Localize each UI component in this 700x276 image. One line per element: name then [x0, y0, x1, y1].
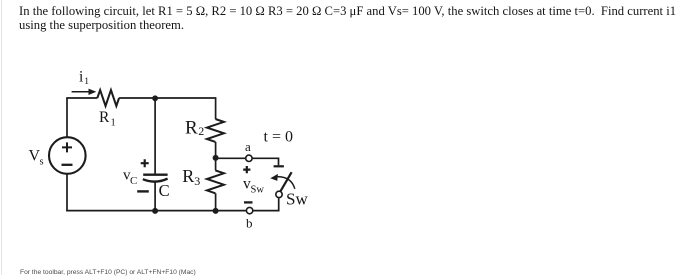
svg-text:1: 1 — [111, 118, 116, 129]
node junction top (capacitor tap) — [152, 95, 158, 101]
wire bottom — [66, 210, 246, 212]
node junction bottom (R3) — [213, 208, 219, 214]
svg-text:b: b — [246, 216, 253, 231]
resistor R2 — [207, 119, 224, 142]
node junction R2-R3 — [213, 155, 219, 161]
resistor R3 lead bottom — [215, 193, 217, 210]
voltage source Vs circle — [49, 137, 86, 174]
switch fixed contact bar — [274, 165, 284, 167]
terminal b — [246, 207, 252, 213]
svg-text:R: R — [182, 166, 194, 186]
svg-text:R: R — [185, 117, 198, 138]
v_sw plus sign — [243, 166, 250, 173]
switch blade — [280, 172, 291, 191]
svg-text:3: 3 — [194, 174, 200, 188]
svg-text:1: 1 — [84, 77, 89, 87]
capacitor C bottom plate (curved) — [143, 179, 168, 182]
svg-text:Sw: Sw — [251, 185, 265, 196]
capacitor plus sign — [141, 159, 149, 167]
svg-text:2: 2 — [198, 124, 204, 138]
svg-text:a: a — [245, 139, 251, 154]
wire R2 branch top lead — [215, 97, 217, 119]
wire top (corner to R1) — [66, 97, 97, 99]
wire terminal a to fixed contact — [252, 158, 278, 165]
terminal a — [246, 155, 252, 161]
question text — [19, 5, 676, 33]
left faint border — [1, 0, 2, 275]
wire terminal b to switch pivot — [253, 198, 279, 211]
svg-text:t = 0: t = 0 — [264, 129, 293, 146]
wire left vertical bottom (source to bottom wire) — [66, 174, 68, 211]
switch closing arrow arc — [278, 177, 295, 189]
capacitor C top plate — [143, 173, 167, 175]
svg-text:s: s — [40, 157, 44, 168]
wire R1 to R2 corner — [119, 97, 216, 99]
switch pivot — [276, 191, 282, 197]
switch closing arrow head — [270, 174, 278, 181]
node junction bottom (capacitor) — [152, 208, 158, 214]
wire R2 to junction — [215, 142, 217, 158]
Vs minus sign — [62, 164, 73, 166]
wire left vertical (source to top corner) — [66, 98, 68, 137]
capacitor C bottom lead — [154, 182, 156, 211]
capacitor C top lead — [154, 98, 156, 174]
current arrow i1 head — [89, 89, 97, 95]
toolbar hint text — [20, 269, 196, 276]
current arrow i1 line — [72, 91, 91, 93]
svg-text:C: C — [159, 181, 170, 200]
resistor R1 — [97, 90, 119, 106]
capacitor minus sign — [137, 190, 149, 192]
resistor R3 — [207, 170, 224, 193]
svg-text:i: i — [79, 69, 84, 86]
v_sw minus sign — [244, 201, 253, 203]
resistor R3 lead top — [215, 158, 217, 170]
wire middle (junction to terminal a) — [218, 157, 246, 159]
Vs plus sign — [62, 142, 72, 152]
svg-text:Sw: Sw — [286, 189, 308, 208]
svg-text:R: R — [99, 109, 110, 126]
svg-text:C: C — [130, 175, 137, 187]
